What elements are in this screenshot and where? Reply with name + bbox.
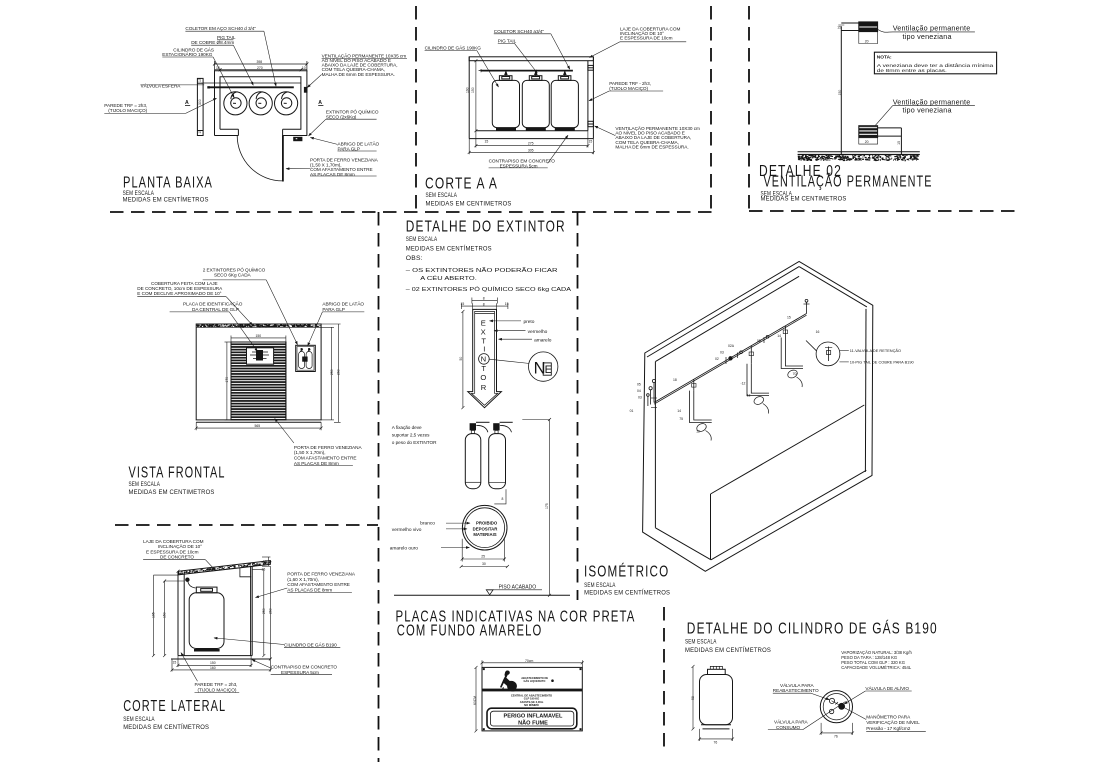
right door veneziana [250,567,252,656]
identification plate window [247,348,274,364]
bottom rounded frame [487,708,577,729]
svg-text:8: 8 [483,297,485,301]
wall line [840,26,842,154]
svg-text:18: 18 [673,378,677,382]
svg-text:15: 15 [262,567,266,571]
svg-text:175: 175 [545,503,549,509]
svg-text:150: 150 [838,90,842,96]
color leaders [489,321,532,364]
cylinder spiral 1 [224,92,247,115]
svg-text:SECO 6Kg CADA: SECO 6Kg CADA [214,273,252,278]
right tall dim lines [252,566,272,660]
svg-text:SEM ESCALA: SEM ESCALA [123,716,155,723]
lower vent striped box [859,126,878,138]
top slab edge lines [647,267,799,357]
placa rect [482,667,582,731]
svg-text:20: 20 [865,39,869,43]
svg-text:190: 190 [466,87,470,93]
bottom dim [698,729,734,741]
svg-text:PERIGO INFLAMAVEL: PERIGO INFLAMAVEL [504,713,564,719]
corte lateral leaders [143,560,352,693]
svg-text:15: 15 [837,25,841,29]
svg-text:250: 250 [262,608,266,614]
svg-text:E COM DECLIVE APROXIMADO DE 10: E COM DECLIVE APROXIMADO DE 10° [137,291,221,296]
svg-text:COM AFASTAMENTO ENTRE: COM AFASTAMENTO ENTRE [287,582,350,587]
svg-text:A fixação deve: A fixação deve [392,425,422,430]
svg-text:VÁLVULA ESFERA: VÁLVULA ESFERA [141,83,182,89]
svg-text:– OS EXTINTORES NÃO PODERÃO F: – OS EXTINTORES NÃO PODERÃO FICAR [406,267,558,274]
svg-text:170: 170 [225,377,229,383]
svg-text:DETALHE DO EXTINTOR: DETALHE DO EXTINTOR [406,219,566,236]
svg-text:A: A [185,100,189,106]
roof slab [469,57,593,61]
cylinder 2 [522,80,549,127]
left front inner edge [654,362,656,528]
svg-text:16: 16 [816,330,820,334]
svg-text:76: 76 [834,735,838,739]
mid pipe fittings [726,335,769,364]
svg-text:SEM ESCALA: SEM ESCALA [426,192,458,199]
svg-text:COLETOR EM AÇO SCH40 d 3/4": COLETOR EM AÇO SCH40 d 3/4" [185,26,256,31]
svg-text:MEDIDAS EM CENTIMETROS: MEDIDAS EM CENTIMETROS [426,201,512,208]
svg-text:15: 15 [198,130,202,134]
svg-text:MEDIDAS EM CENTIMETROS: MEDIDAS EM CENTIMETROS [761,196,847,203]
vent opening black mark on right wall [304,87,308,93]
svg-text:13: 13 [747,394,751,398]
svg-text:SEM ESCALA: SEM ESCALA [406,236,438,243]
cylinder spiral 2 [249,92,272,115]
svg-text:Pressão - 17 Kgf/cm2: Pressão - 17 Kgf/cm2 [866,726,911,731]
svg-text:MEDIDAS EM CENTIMETROS: MEDIDAS EM CENTIMETROS [129,489,215,496]
svg-text:MEDIDAS EM CENTÍMETROS: MEDIDAS EM CENTÍMETROS [123,195,209,204]
svg-text:305: 305 [528,148,534,152]
right wall vents [588,65,594,70]
svg-text:15: 15 [461,302,465,306]
vista frontal leaders [137,280,364,466]
pictogram person with cylinder cart [500,671,518,692]
svg-text:I: I [483,345,485,354]
lintel step [240,568,251,577]
svg-text:15: 15 [589,140,593,144]
svg-text:SEM ESCALA: SEM ESCALA [584,582,616,589]
svg-text:vermelho: vermelho [528,329,548,335]
ground double line [798,151,920,153]
corte A A annotation leaders [425,34,687,168]
black band [482,689,582,692]
svg-text:20: 20 [865,140,869,144]
svg-text:70cm: 70cm [525,659,533,663]
svg-text:branco: branco [420,521,435,527]
svg-text:DA CENTRAL DE GLP: DA CENTRAL DE GLP [192,307,239,312]
svg-text:MEDIDAS EM CENTÍMETROS: MEDIDAS EM CENTÍMETROS [406,244,492,253]
dim 8 bracket [494,489,506,504]
svg-text:DEPOSITAR: DEPOSITAR [473,527,499,532]
svg-text:A CÉU ABERTO.: A CÉU ABERTO. [420,275,477,282]
svg-text:03: 03 [638,396,642,400]
bottom right inner edge [711,470,866,560]
svg-text:MEDIDAS EM CENTÍMETROS: MEDIDAS EM CENTÍMETROS [685,645,771,654]
svg-text:A: A [318,100,322,106]
roof slab speckled band [196,326,321,328]
svg-text:SEM ESCALA: SEM ESCALA [129,481,161,488]
proibido depositar sign [462,505,507,550]
right wall [587,61,589,131]
svg-text:NOTA:: NOTA: [877,55,892,61]
door top dim [231,336,286,343]
top dims [461,298,508,310]
wall outline inner [220,77,301,130]
left interior dim line [474,59,477,132]
svg-text:25: 25 [481,555,485,559]
svg-text:SECO (2x6Kg): SECO (2x6Kg) [326,115,357,120]
svg-text:03: 03 [720,351,724,355]
left wall [177,571,179,655]
svg-text:MALHA DE 6mm DE ESPESSURA.: MALHA DE 6mm DE ESPESSURA. [322,72,395,77]
svg-text:COM FUNDO AMARELO: COM FUNDO AMARELO [397,623,543,640]
detail balloon circle [806,341,849,366]
svg-text:10: 10 [302,66,306,70]
svg-text:PLANTA BAIXA: PLANTA BAIXA [123,175,213,192]
support bracket 2 with pigtail [747,346,769,414]
svg-text:10: 10 [216,66,220,70]
ground speckle [798,155,919,162]
svg-text:30: 30 [482,562,486,566]
contrapiso floor [476,130,588,132]
interior rail line [203,82,301,84]
cylinder 3 [551,80,578,127]
svg-text:195: 195 [151,612,155,618]
svg-text:270: 270 [257,66,263,70]
left wall line [468,57,470,139]
NOTA box [874,52,996,74]
wall front [196,324,321,420]
svg-text:CORTE LATERAL: CORTE LATERAL [123,698,226,715]
svg-text:PORTA DE FERRO VENEZIANA: PORTA DE FERRO VENEZIANA [287,572,356,577]
svg-text:MATERIAIS: MATERIAIS [473,532,496,537]
N circle on sign [479,354,490,365]
svg-text:75: 75 [679,417,683,421]
bottom base strip [196,421,321,423]
svg-text:10-PIG TAIL DE COBRE PARA B190: 10-PIG TAIL DE COBRE PARA B190 [850,360,915,365]
svg-text:(TIJOLO MACIÇO): (TIJOLO MACIÇO) [198,688,237,693]
svg-text:260: 260 [268,608,272,614]
svg-text:PLACA DE IDENTIFICAÇÃO: PLACA DE IDENTIFICAÇÃO [183,301,243,307]
extinguisher shelter black box [293,137,302,141]
svg-text:CORTE A A: CORTE A A [425,176,498,193]
svg-text:398: 398 [257,60,263,64]
svg-text:(TIJOLO MACIÇO): (TIJOLO MACIÇO) [609,86,648,91]
iso part number labels [630,316,820,434]
svg-text:R: R [481,383,487,392]
cylinder top view [820,691,854,735]
svg-text:04: 04 [637,389,641,393]
svg-text:PROIBIDO: PROIBIDO [476,521,498,526]
svg-text:MALHA DE 6mm DE ESPESSURA.: MALHA DE 6mm DE ESPESSURA. [615,145,688,150]
svg-text:PARA GLP: PARA GLP [338,146,360,151]
svg-text:suportar 2,5 vezes: suportar 2,5 vezes [392,433,430,438]
svg-text:ESPESSURA 5cm: ESPESSURA 5cm [281,670,319,675]
svg-text:tipo veneziana: tipo veneziana [903,32,952,41]
svg-text:E: E [481,318,486,327]
left end risers and gauges [653,383,655,403]
right wall inner edge [864,309,867,472]
svg-text:08: 08 [757,339,761,343]
svg-text:COM AFASTAMENTO ENTRE: COM AFASTAMENTO ENTRE [294,456,357,461]
interior floor/back wall junction [710,494,712,559]
svg-text:8: 8 [502,497,504,501]
svg-text:(1,60 X 1,70m),: (1,60 X 1,70m), [287,577,319,582]
louvered door [231,342,286,420]
svg-text:preto: preto [524,319,535,325]
svg-text:05: 05 [637,383,641,387]
svg-text:REABASTECIMENTO: REABASTECIMENTO [773,688,819,693]
sign bottom dims [460,539,509,568]
svg-text:COLETOR SCH40 a3/4": COLETOR SCH40 a3/4" [494,29,545,34]
svg-text:76: 76 [714,741,718,745]
svg-text:amarelo ouro: amarelo ouro [390,546,419,552]
svg-text:DETALHE DO CILINDRO DE GÁS B19: DETALHE DO CILINDRO DE GÁS B190 [687,621,938,638]
svg-text:60CM: 60CM [473,696,477,705]
svg-text:AS PLACAS DE 8mm: AS PLACAS DE 8mm [287,587,332,592]
svg-text:CONSUMO: CONSUMO [776,725,801,730]
svg-text:300: 300 [198,99,202,105]
svg-text:ESTACIONÁRIO 190KG: ESTACIONÁRIO 190KG [162,51,212,57]
extinguisher bottles [465,418,551,597]
top vent dim bracket 20 [859,32,878,44]
left annex wall [197,78,203,135]
svg-text:14: 14 [777,334,781,338]
left dim 50 [461,310,464,409]
svg-text:PIG TAIL: PIG TAIL [217,35,236,40]
svg-text:11-VALVULA DE RETENÇÃO: 11-VALVULA DE RETENÇÃO [850,348,901,353]
svg-text:58: 58 [691,696,695,700]
svg-text:ISOMÉTRICO: ISOMÉTRICO [584,564,669,581]
svg-text:15: 15 [897,141,901,145]
dimension line 270 [215,68,307,71]
svg-text:T: T [481,364,486,373]
svg-text:INCLINAÇÃO DE 10°: INCLINAÇÃO DE 10° [158,543,202,549]
svg-text:160: 160 [210,666,216,670]
svg-text:PIG TAIL: PIG TAIL [498,38,517,43]
svg-text:AS PLACAS DE 8mm: AS PLACAS DE 8mm [310,172,355,177]
svg-text:12: 12 [696,429,700,433]
svg-text:02: 02 [715,357,719,361]
extinguisher cabinet [296,345,316,371]
right end [806,303,808,314]
svg-text:ABRIGO DE LATÃO: ABRIGO DE LATÃO [322,301,364,307]
right tall dim 175 [522,418,551,597]
right slab end dims [262,557,270,566]
svg-text:01: 01 [630,409,634,413]
dimension line 398 [213,61,308,72]
svg-text:tipo veneziana: tipo veneziana [903,105,952,114]
svg-text:EXTINTOR PÓ QUÍMICO: EXTINTOR PÓ QUÍMICO [326,108,379,114]
svg-text:DE CONCRETO: DE CONCRETO [160,555,194,560]
svg-text:SEM ESCALA: SEM ESCALA [685,639,717,646]
dims [475,660,584,732]
svg-text:NÃO FUME: NÃO FUME [518,720,548,727]
svg-text:15: 15 [173,661,177,665]
svg-text:02A: 02A [728,344,735,348]
gas cylinder [189,593,224,649]
cylinder 1 [492,80,519,127]
right dims [321,324,341,422]
svg-text:MEDIDAS EM CENTÍMETROS: MEDIDAS EM CENTÍMETROS [584,588,670,597]
svg-text:CONTRAPISO EM CONCRETO: CONTRAPISO EM CONCRETO [271,664,338,669]
svg-text:15: 15 [505,302,509,306]
svg-text:14: 14 [677,409,681,413]
svg-text:150: 150 [471,87,475,93]
door leaf [282,136,284,182]
top vent striped box [859,22,878,32]
svg-text:ESPESSURA 5cm: ESPESSURA 5cm [500,163,538,168]
svg-text:vermelho vivo: vermelho vivo [392,527,422,533]
svg-text:MANÔMETRO PARA: MANÔMETRO PARA [866,714,911,720]
svg-text:CILINDRO DE GÁS B190: CILINDRO DE GÁS B190 [284,642,337,648]
svg-text:275: 275 [528,142,534,146]
svg-text:PARA GLP: PARA GLP [322,307,344,312]
cylinder spiral 3 [275,92,298,115]
cylinder side view [692,665,735,741]
svg-text:N: N [481,355,486,364]
door left dim [225,342,232,420]
svg-text:MEDIDAS EM CENTÍMETROS: MEDIDAS EM CENTÍMETROS [123,722,209,731]
svg-text:(1,50 X 1,70m),: (1,50 X 1,70m), [294,450,326,455]
svg-text:10: 10 [263,560,267,564]
left dims [152,570,184,657]
svg-text:565: 565 [255,424,261,428]
sign arrow inner [471,311,497,405]
bottom dims [171,656,272,672]
bottom dim [820,723,854,735]
svg-text:VÁLVULA PARA: VÁLVULA PARA [774,719,809,725]
detalhe02 leaders [838,25,975,125]
svg-text:15: 15 [485,140,489,144]
door swing arc [237,136,282,181]
bottom dimension lines [468,131,595,155]
lower vent dim bracket [859,138,878,145]
pipe manifold [647,299,810,407]
svg-text:CILINDRO DE GÁS 190KG: CILINDRO DE GÁS 190KG [425,45,482,51]
bottom dim [195,422,323,430]
coletor manifold (thick) [208,86,294,88]
svg-text:E: E [545,364,552,376]
svg-text:E ESPESSURA DE 10cm: E ESPESSURA DE 10cm [620,36,673,41]
sloped roof slab with speckle [179,561,271,575]
svg-text:70: 70 [793,372,797,376]
svg-text:150: 150 [256,334,262,338]
svg-text:PORTA DE FERRO VENEZIANA: PORTA DE FERRO VENEZIANA [294,445,363,450]
svg-text:VENTILAÇÃO PERMANENTE: VENTILAÇÃO PERMANENTE [764,174,933,191]
svg-text:-12: -12 [741,381,746,385]
svg-text:o peso do EXTINTOR: o peso do EXTINTOR [392,440,437,445]
svg-text:15: 15 [787,316,791,320]
svg-text:150: 150 [210,661,216,665]
svg-text:250: 250 [330,369,334,375]
svg-text:VERIFICAÇÃO DE NÍVEL: VERIFICAÇÃO DE NÍVEL [866,719,920,725]
svg-text:260: 260 [336,369,340,375]
svg-text:VÁLVULA PARA: VÁLVULA PARA [780,682,815,688]
svg-text:O: O [480,373,486,382]
room outer outline [643,261,873,571]
svg-text:AS PLACAS DE 8mm: AS PLACAS DE 8mm [294,461,339,466]
svg-text:de 8mm entre as placas.: de 8mm entre as placas. [877,68,947,73]
support bracket 3 with pigtail [781,326,803,387]
svg-text:15: 15 [198,78,202,82]
svg-text:8: 8 [483,302,485,306]
svg-text:CAPACIDADE VOLUMÉTRICA: 454L: CAPACIDADE VOLUMÉTRICA: 454L [841,665,912,670]
sign arrow outer [468,309,502,407]
svg-text:VISTA FRONTAL: VISTA FRONTAL [129,465,226,482]
svg-text:amarelo: amarelo [534,337,552,343]
coletor manifold [481,70,573,72]
svg-text:VÁLVULA DE ALÍVIO: VÁLVULA DE ALÍVIO [865,685,909,691]
support bracket 1 with pigtail [690,379,712,440]
planta annotations [104,31,407,176]
left dim [692,665,695,731]
svg-text:150: 150 [163,612,167,618]
svg-text:PAREDE TRF = 2h3,: PAREDE TRF = 2h3, [195,682,238,687]
svg-text:DE COBRE Ø8.4mm: DE COBRE Ø8.4mm [191,40,234,45]
door jambs [237,129,239,135]
svg-text:(TIJOLO MACIÇO): (TIJOLO MACIÇO) [108,108,147,113]
NE symbol circle [529,352,558,381]
floor [178,655,252,657]
wall outline outer [215,71,307,136]
svg-text:– 02 EXTINTORES PÓ QUÍMICO SE: – 02 EXTINTORES PÓ QUÍMICO SECO 6kg CADA [406,286,571,293]
top view leaders [768,691,926,731]
svg-text:50: 50 [459,357,463,361]
svg-text:OBS:: OBS: [406,255,423,262]
svg-text:X: X [481,327,486,336]
